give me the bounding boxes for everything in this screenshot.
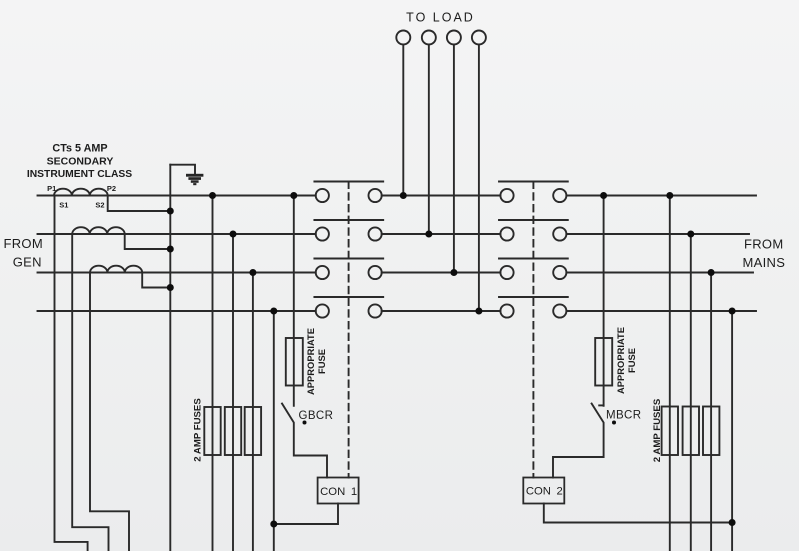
wire bus row4 right segment xyxy=(566,310,756,312)
node row3-load3 xyxy=(450,269,457,276)
node row1 MBCR tap xyxy=(600,192,607,199)
wire bus row3 middle segment xyxy=(382,272,501,274)
fuse F3 2AMP left xyxy=(245,407,261,455)
contactor K1 bar pole3 xyxy=(314,258,383,260)
svg-text:MBCR: MBCR xyxy=(606,410,641,422)
label FROM MAINS xyxy=(743,236,786,270)
svg-text:APPROPRIATE: APPROPRIATE xyxy=(305,328,316,395)
svg-text:S2: S2 xyxy=(95,201,104,210)
load terminal T4 xyxy=(472,31,486,45)
wire ground bus vertical xyxy=(169,165,171,551)
node row4 tap right xyxy=(729,308,736,315)
load terminal T3 xyxy=(447,31,461,45)
wire bus row1 left segment xyxy=(38,195,316,197)
wire 2A fuse tap row2 right xyxy=(690,234,692,551)
svg-text:S1: S1 xyxy=(59,201,68,210)
wire CT1 S2 lead xyxy=(108,196,171,212)
node row2 fuse tap left xyxy=(230,231,237,238)
node row4 tap left xyxy=(270,308,277,315)
node row2 fuse tap right xyxy=(687,231,694,238)
node ground S2-1 xyxy=(167,208,174,215)
svg-text:GBCR: GBCR xyxy=(299,410,334,422)
node CON1 return xyxy=(270,521,277,528)
svg-text:P1: P1 xyxy=(47,184,56,193)
contactor K2 bar pole1 xyxy=(499,181,568,183)
svg-text:CTs 5 AMP: CTs 5 AMP xyxy=(52,143,107,155)
switch MBCR blade xyxy=(553,404,604,478)
wire MBCR fuse tap xyxy=(603,196,605,406)
wire ground branch xyxy=(170,165,195,173)
wire 2A fuse tap row1 left xyxy=(212,196,214,551)
svg-text:SECONDARY: SECONDARY xyxy=(47,156,114,168)
fuse F2 2AMP left xyxy=(225,407,241,455)
wire CT1 S1 lead xyxy=(55,196,88,551)
svg-text:CON: CON xyxy=(320,486,345,498)
load terminal T1 xyxy=(396,31,410,45)
wire row4 tap right xyxy=(731,311,733,551)
svg-text:P2: P2 xyxy=(107,184,116,193)
wire 2A fuse tap row3 right xyxy=(710,273,712,551)
wire load line 2 xyxy=(428,45,430,235)
node row3 fuse tap left xyxy=(249,269,256,276)
label APPROPRIATE FUSE left xyxy=(305,328,327,395)
fuse F4 2AMP right xyxy=(662,407,678,456)
node row1-load1 xyxy=(400,192,407,199)
wire CON1 return xyxy=(274,504,338,525)
svg-text:FUSE: FUSE xyxy=(626,348,637,373)
node row2-load2 xyxy=(425,231,432,238)
contactor K1 bar pole1 xyxy=(314,181,383,183)
svg-text:2 AMP FUSES: 2 AMP FUSES xyxy=(193,398,204,462)
label CTs note xyxy=(27,143,132,180)
wire bus row3 right segment xyxy=(566,272,753,274)
node ground S2-2 xyxy=(167,246,174,253)
contactor K1 bar pole2 xyxy=(314,219,383,221)
contactor K1 linkage dashed xyxy=(348,182,350,478)
contactor coil CON2 box xyxy=(523,478,564,504)
contactor coil CON1 box xyxy=(318,478,359,504)
wire 2A fuse tap row2 left xyxy=(232,234,234,551)
fuse F1 2AMP left xyxy=(204,407,220,455)
wire 2A fuse tap row3 left xyxy=(252,273,254,551)
wire bus row4 middle segment xyxy=(382,310,501,312)
ground symbol xyxy=(186,174,203,185)
contactor K2 bar pole3 xyxy=(499,258,568,260)
wire bus row2 right segment xyxy=(566,233,749,235)
transformer CT3 coil xyxy=(90,266,142,273)
wire bus row3 left segment xyxy=(38,272,316,274)
node row1 GBCR tap xyxy=(290,192,297,199)
wire CT3 S2 lead xyxy=(142,273,170,288)
switch GBCR blade xyxy=(282,404,327,478)
svg-text:2 AMP FUSES: 2 AMP FUSES xyxy=(652,398,663,462)
wire bus row2 left segment xyxy=(38,233,316,235)
wire CT3 S1 lead xyxy=(90,273,129,551)
svg-text:APPROPRIATE: APPROPRIATE xyxy=(615,327,626,394)
switch MBCR fixed contact tick xyxy=(599,404,603,406)
svg-text:CON: CON xyxy=(526,485,551,497)
fuse F5 2AMP right xyxy=(683,407,699,456)
wire 2A fuse tap row1 right xyxy=(669,196,671,551)
node row1 fuse tap left xyxy=(209,192,216,199)
contactor K2 bar pole4 xyxy=(499,296,568,298)
fuse appropriate right xyxy=(595,338,612,386)
contactor K2 contact circles xyxy=(500,189,566,318)
wire CT2 S2 lead xyxy=(125,234,171,249)
wire bus row1 right segment xyxy=(566,195,756,197)
svg-text:FUSE: FUSE xyxy=(316,349,327,374)
wire row4 tap left xyxy=(273,311,275,551)
wire bus row1 middle segment xyxy=(382,195,501,197)
label CON 1 xyxy=(320,486,357,498)
contactor K1 contact circles xyxy=(316,189,382,318)
svg-text:2: 2 xyxy=(557,485,563,497)
svg-text:FROM: FROM xyxy=(4,236,43,251)
label APPROPRIATE FUSE right xyxy=(615,327,637,394)
svg-text:1: 1 xyxy=(351,486,357,498)
fuse F6 2AMP right xyxy=(703,407,719,456)
switch GBCR aux dot xyxy=(303,421,307,425)
wire GBCR fuse tap xyxy=(293,196,295,406)
wire bus row4 left segment xyxy=(38,310,316,312)
load terminal T2 xyxy=(422,31,436,45)
label CON 2 xyxy=(526,485,563,497)
wire CON2 return xyxy=(544,504,732,523)
contactor K2 bar pole2 xyxy=(499,219,568,221)
svg-text:MAINS: MAINS xyxy=(743,255,786,270)
svg-text:INSTRUMENT CLASS: INSTRUMENT CLASS xyxy=(27,169,132,180)
svg-text:TO LOAD: TO LOAD xyxy=(406,11,475,25)
contactor K1 bar pole4 xyxy=(314,296,383,298)
node CON2 return xyxy=(729,519,736,526)
switch MBCR aux dot xyxy=(612,421,616,425)
transformer CT1 coil xyxy=(54,189,108,196)
wire CT2 S1 lead xyxy=(72,234,108,551)
label FROM GEN xyxy=(4,236,43,270)
transformer CT2 coil xyxy=(72,227,125,234)
wire load line 3 xyxy=(453,45,455,273)
contactor K2 linkage dashed xyxy=(532,182,534,478)
node ground S2-3 xyxy=(167,284,174,291)
node row3 fuse tap right xyxy=(708,269,715,276)
fuse appropriate left xyxy=(286,338,303,386)
node row1 fuse tap right xyxy=(666,192,673,199)
wire load line 1 xyxy=(402,45,404,196)
wire bus row2 middle segment xyxy=(382,233,501,235)
node row4-load4 xyxy=(475,308,482,315)
svg-text:GEN: GEN xyxy=(13,255,42,270)
svg-text:FROM: FROM xyxy=(744,236,783,251)
wire load line 4 xyxy=(478,45,480,312)
